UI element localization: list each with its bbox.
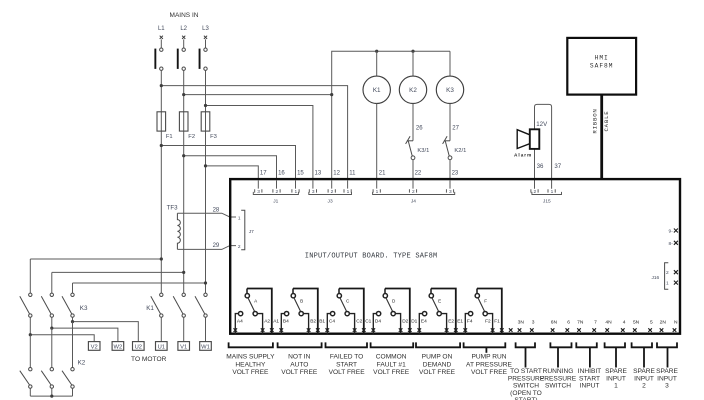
svg-text:15: 15 — [297, 170, 304, 176]
svg-text:B2: B2 — [310, 319, 316, 325]
svg-text:1: 1 — [238, 215, 241, 221]
wire K1 pole to motor terminal at x=161.3 — [160, 317, 162, 341]
label TO MOTOR — [131, 356, 167, 363]
svg-text:DEMAND: DEMAND — [423, 361, 452, 368]
ribbon cable label — [592, 108, 610, 133]
svg-text:N: N — [674, 319, 678, 325]
contactor K1 pole at x=205.5 — [195, 293, 207, 317]
input terminal 4 — [621, 319, 626, 332]
svg-text:12: 12 — [333, 170, 340, 176]
wire tap L1 to K3 bank — [30, 259, 161, 293]
svg-text:L2: L2 — [180, 26, 187, 32]
svg-text:F2: F2 — [188, 134, 195, 140]
svg-text:D1: D1 — [411, 319, 417, 325]
label K2 — [78, 360, 86, 367]
wire 23 (contact to board) — [450, 160, 459, 179]
motor terminal U2 — [133, 342, 145, 351]
svg-text:12V: 12V — [536, 121, 548, 128]
motor terminal U1 — [156, 342, 168, 351]
wire phase L3 vertical — [205, 70, 207, 293]
svg-text:W1: W1 — [201, 344, 210, 350]
svg-text:L1: L1 — [158, 26, 165, 32]
wire number 17 — [260, 170, 267, 176]
svg-text:A4: A4 — [237, 319, 243, 325]
svg-text:4N: 4N — [605, 319, 612, 325]
disconnect switch pole L2 — [177, 26, 188, 70]
svg-text:PRESSURE: PRESSURE — [540, 375, 577, 382]
junction L1 tap — [160, 257, 163, 260]
svg-text:HMI: HMI — [595, 55, 609, 62]
input group label SPARE — [605, 342, 628, 389]
coil feed junction K2 — [411, 50, 414, 77]
svg-text:NOT IN: NOT IN — [288, 354, 310, 361]
output group label MAINS SUPPLY — [226, 342, 275, 376]
relay B output contact — [280, 289, 326, 335]
input group label INHIBIT — [576, 342, 601, 389]
svg-text:INPUT: INPUT — [606, 375, 626, 382]
input terminal 5 — [648, 319, 653, 332]
relay F output contact — [464, 289, 504, 335]
svg-text:E2: E2 — [448, 319, 454, 325]
wire number 11 — [349, 170, 356, 176]
contactor K3 pole at x=30.3 — [20, 293, 32, 317]
svg-text:13: 13 — [315, 170, 322, 176]
svg-text:3N: 3N — [518, 319, 525, 325]
input terminal 3N — [518, 319, 525, 332]
disconnect switch pole L1 — [154, 26, 165, 70]
svg-text:K2: K2 — [78, 360, 86, 367]
svg-text:21: 21 — [379, 170, 386, 176]
svg-text:V2: V2 — [91, 344, 98, 350]
input terminal 7N — [577, 319, 584, 332]
relay A output contact — [234, 289, 280, 335]
svg-text:2: 2 — [642, 383, 646, 390]
svg-text:5N: 5N — [633, 319, 640, 325]
svg-text:HEALTHY: HEALTHY — [235, 361, 266, 368]
interlock contact K3/1 under coil K2 — [406, 104, 430, 160]
wire phase L2 vertical — [183, 70, 185, 293]
svg-text:2: 2 — [666, 270, 669, 276]
svg-text:C2: C2 — [356, 319, 362, 325]
wire 22 (contact to board) — [413, 160, 422, 179]
contactor coil K1 — [363, 76, 390, 103]
relay D output contact — [372, 289, 418, 335]
svg-text:VOLT FREE: VOLT FREE — [419, 369, 456, 376]
svg-text:6N: 6N — [551, 319, 558, 325]
svg-text:C: C — [346, 299, 350, 304]
svg-text:4: 4 — [623, 319, 626, 325]
connector J15 terminals — [531, 189, 562, 204]
svg-text:B: B — [300, 299, 303, 304]
terminal 8 — [669, 241, 678, 247]
transformer TF3 — [167, 204, 181, 249]
svg-text:TO MOTOR: TO MOTOR — [131, 356, 167, 363]
svg-text:11: 11 — [349, 170, 356, 176]
svg-text:J4: J4 — [411, 199, 416, 205]
wire 29 (transformer to J7 pin2) — [177, 243, 236, 249]
svg-text:V1: V1 — [180, 344, 187, 350]
motor terminal V1 — [178, 342, 190, 351]
wire tap L2 to K3 bank — [52, 272, 184, 293]
contactor coil K3 — [436, 76, 463, 103]
input terminal 4N — [605, 319, 612, 332]
svg-text:9-: 9- — [669, 229, 674, 235]
svg-text:C1: C1 — [365, 319, 371, 325]
fuse F3 — [201, 112, 217, 140]
svg-text:F3: F3 — [210, 134, 217, 140]
svg-text:VOLT FREE: VOLT FREE — [373, 369, 410, 376]
svg-text:INPUT: INPUT — [580, 383, 600, 390]
alarm sounder — [514, 129, 539, 157]
disconnect switch pole L3 — [199, 26, 210, 70]
wire coil feed to K3 — [449, 51, 451, 76]
svg-text:INHIBIT: INHIBIT — [578, 368, 601, 375]
svg-text:1: 1 — [666, 281, 669, 287]
input terminal 6 — [566, 319, 571, 332]
input terminal N — [673, 319, 678, 332]
svg-text:7: 7 — [594, 319, 597, 325]
svg-text:PUMP RUN: PUMP RUN — [471, 354, 506, 361]
board title — [305, 252, 438, 260]
input terminal 5N — [633, 319, 640, 332]
svg-text:RUNNING: RUNNING — [543, 368, 574, 375]
output group label COMMON — [371, 342, 414, 376]
input terminal 6N — [551, 319, 558, 332]
svg-text:5: 5 — [650, 319, 653, 325]
wire number 37 — [554, 163, 561, 170]
svg-text:K3: K3 — [80, 305, 88, 312]
wire 15 (fused L1 to board) — [160, 144, 296, 179]
input terminal 2N — [660, 319, 667, 332]
label K3 — [80, 305, 88, 312]
svg-text:D2: D2 — [402, 319, 408, 325]
svg-text:CABLE: CABLE — [603, 110, 610, 131]
wire K3-1 to V2 — [29, 317, 95, 367]
HMI display unit — [567, 38, 636, 95]
connector J7 — [238, 210, 254, 250]
svg-text:F1: F1 — [166, 134, 173, 140]
contactor K2 pole at x=51.8 — [41, 368, 53, 397]
svg-text:AUTO: AUTO — [290, 361, 308, 368]
svg-text:A2: A2 — [264, 319, 270, 325]
svg-text:K2/1: K2/1 — [454, 148, 466, 154]
wire 16 (fused L2 to board) — [182, 154, 276, 179]
svg-text:F1: F1 — [494, 319, 500, 325]
spare X terminal — [509, 328, 513, 332]
contactor K1 pole at x=161.3 — [151, 293, 163, 317]
junction L3 tap — [204, 281, 207, 284]
label 12V — [536, 121, 548, 128]
svg-text:TF3: TF3 — [167, 204, 179, 211]
svg-text:E1: E1 — [457, 319, 463, 325]
svg-text:K3: K3 — [446, 87, 454, 94]
svg-text:37: 37 — [554, 163, 561, 170]
svg-text:2N: 2N — [660, 319, 667, 325]
input group label TO START — [508, 342, 545, 400]
wire 11 (L1 to board) — [160, 84, 348, 179]
svg-text:VOLT FREE: VOLT FREE — [232, 369, 269, 376]
wire K3-3 to U2 — [71, 317, 138, 367]
svg-text:VOLT FREE: VOLT FREE — [471, 369, 508, 376]
svg-text:INPUT/OUTPUT BOARD. TYPE SAF8M: INPUT/OUTPUT BOARD. TYPE SAF8M — [305, 252, 438, 260]
svg-text:K1: K1 — [373, 87, 381, 94]
svg-text:PUMP ON: PUMP ON — [422, 354, 453, 361]
svg-text:16: 16 — [278, 170, 285, 176]
svg-text:SPARE: SPARE — [605, 368, 627, 375]
svg-text:J1: J1 — [273, 199, 278, 205]
label K1 — [146, 305, 154, 312]
wire 12 (L2 to board and coil feed) — [182, 51, 450, 179]
svg-text:J7: J7 — [249, 229, 254, 235]
motor terminal W1 — [200, 342, 212, 351]
connector J3 terminals — [309, 181, 352, 205]
svg-text:6: 6 — [567, 319, 570, 325]
svg-text:W2: W2 — [114, 344, 123, 350]
motor terminal V2 — [88, 342, 100, 351]
input group label RUNNING — [540, 342, 577, 389]
coil feed junction K1 — [375, 50, 378, 77]
fuse F1 — [157, 112, 173, 140]
svg-text:A: A — [254, 299, 258, 304]
output group label PUMP ON — [416, 342, 460, 376]
wire number 15 — [297, 170, 304, 176]
svg-text:28: 28 — [213, 207, 220, 213]
svg-text:26: 26 — [416, 126, 423, 132]
terminal 9 — [669, 229, 678, 235]
contactor K3 pole at x=51.8 — [41, 293, 53, 317]
svg-text:C4: C4 — [329, 319, 335, 325]
svg-text:E4: E4 — [421, 319, 427, 325]
svg-text:K1: K1 — [146, 305, 154, 312]
svg-text:B1: B1 — [319, 319, 325, 325]
input terminal 7 — [592, 319, 597, 332]
mains supply label — [170, 12, 199, 19]
svg-text:INPUT: INPUT — [634, 375, 654, 382]
svg-text:VOLT FREE: VOLT FREE — [329, 369, 366, 376]
svg-text:FAULT #1: FAULT #1 — [377, 361, 406, 368]
contactor coil K2 — [399, 76, 426, 103]
svg-text:F2: F2 — [485, 319, 491, 325]
svg-text:COMMON: COMMON — [376, 354, 407, 361]
svg-text:TO START: TO START — [510, 368, 542, 375]
svg-text:2: 2 — [238, 244, 241, 250]
ribbon cable — [600, 95, 603, 179]
wire 36/37 alarm loop — [535, 104, 552, 188]
junction L2 tap — [182, 271, 185, 274]
svg-text:SWITCH: SWITCH — [545, 383, 571, 390]
svg-text:8-: 8- — [669, 241, 674, 247]
output group label NOT IN — [278, 342, 322, 376]
wire 28 (transformer to J7 pin1) — [177, 207, 236, 217]
wire tap L3 to K3 bank — [73, 283, 206, 293]
svg-text:SPARE: SPARE — [656, 368, 678, 375]
wire K3-2 to W2 — [50, 317, 118, 367]
svg-text:17: 17 — [260, 170, 267, 176]
svg-text:3: 3 — [665, 383, 669, 390]
wire number 13 — [315, 170, 322, 176]
svg-text:F: F — [484, 299, 487, 304]
wire 21 (K1 coil to board) — [377, 104, 386, 180]
svg-text:MAINS IN: MAINS IN — [170, 12, 199, 19]
connector J1 terminals — [253, 181, 299, 205]
I/O board outline — [230, 179, 680, 334]
wire 13 (L3 to board) — [204, 104, 313, 179]
svg-text:MAINS SUPPLY: MAINS SUPPLY — [226, 354, 275, 361]
wire 17 (fused L3 to board) — [204, 164, 258, 179]
svg-text:START: START — [579, 375, 600, 382]
svg-text:22: 22 — [415, 170, 422, 176]
output group label PUMP RUN — [464, 342, 513, 376]
svg-text:START: START — [336, 361, 357, 368]
input terminal 3 — [530, 319, 535, 332]
svg-text:3: 3 — [532, 319, 535, 325]
input group label SPARE — [632, 342, 656, 389]
wire number 16 — [278, 170, 285, 176]
wire K1 pole to motor terminal at x=183.7 — [183, 317, 185, 341]
svg-text:K2: K2 — [409, 87, 417, 94]
svg-text:7N: 7N — [577, 319, 584, 325]
svg-text:J3: J3 — [328, 199, 333, 205]
svg-text:SPARE: SPARE — [633, 368, 655, 375]
interlock contact K2/1 under coil K3 — [443, 104, 467, 160]
svg-text:J16: J16 — [651, 275, 659, 281]
svg-text:U1: U1 — [158, 344, 165, 350]
svg-text:SAF8M: SAF8M — [590, 62, 614, 69]
contactor K1 pole at x=183.7 — [173, 293, 185, 317]
contactor K3 pole at x=72.5 — [62, 293, 74, 317]
relay E output contact — [418, 289, 464, 335]
svg-text:1: 1 — [614, 383, 618, 390]
wire number 12 — [333, 170, 340, 176]
svg-text:D4: D4 — [375, 319, 381, 325]
fuse F2 — [179, 112, 195, 140]
connector J16 — [651, 263, 677, 289]
svg-text:K3/1: K3/1 — [417, 148, 429, 154]
svg-text:FAILED TO: FAILED TO — [330, 354, 363, 361]
svg-text:B4: B4 — [283, 319, 289, 325]
svg-text:23: 23 — [452, 170, 459, 176]
svg-text:36: 36 — [537, 163, 544, 170]
svg-text:VOLT FREE: VOLT FREE — [281, 369, 318, 376]
svg-text:INPUT: INPUT — [657, 375, 677, 382]
contactor K2 pole at x=72.5 — [62, 368, 74, 397]
wire phase L1 vertical — [160, 70, 162, 293]
connector J4 terminals — [373, 181, 455, 205]
svg-text:A1: A1 — [273, 319, 279, 325]
input group label SPARE — [656, 342, 678, 389]
svg-text:J15: J15 — [543, 199, 551, 205]
svg-text:AT PRESSURE: AT PRESSURE — [466, 361, 513, 368]
svg-text:RIBBON: RIBBON — [592, 108, 599, 133]
contactor K2 pole at x=30.3 — [20, 368, 32, 397]
svg-text:(OPEN TO: (OPEN TO — [510, 390, 542, 397]
svg-text:L3: L3 — [202, 26, 209, 32]
svg-text:F4: F4 — [467, 319, 473, 325]
motor terminal W2 — [112, 342, 124, 351]
output group label FAILED TO — [326, 342, 368, 376]
relay C output contact — [326, 289, 372, 335]
svg-text:E: E — [438, 299, 441, 304]
svg-text:Alarm: Alarm — [514, 152, 532, 157]
wire K1 pole to motor terminal at x=205.5 — [205, 317, 207, 341]
svg-text:U2: U2 — [135, 344, 142, 350]
svg-text:SWITCH: SWITCH — [513, 383, 539, 390]
wire number 36 — [537, 163, 544, 170]
svg-text:27: 27 — [452, 126, 459, 132]
svg-text:29: 29 — [213, 243, 220, 249]
star point bar — [30, 395, 72, 398]
svg-text:D: D — [392, 299, 396, 304]
